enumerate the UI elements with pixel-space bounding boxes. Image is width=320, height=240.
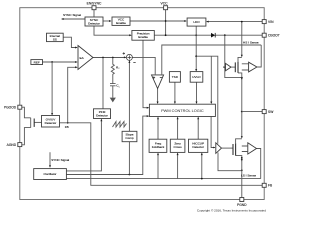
pin AGND xyxy=(7,143,22,147)
box PFM Detector xyxy=(94,109,111,119)
wire VCC Enable to LDO xyxy=(130,20,187,22)
svg-text:HS I Sense: HS I Sense xyxy=(243,40,259,44)
op-amp LS current sense xyxy=(242,143,257,154)
node REF junction xyxy=(51,61,53,63)
wire VIN rail down to HS FET drain xyxy=(238,22,243,62)
svg-text:Detector: Detector xyxy=(192,145,204,149)
wire FB net to FB pin xyxy=(60,123,263,186)
transistor PGOOD FET xyxy=(22,107,34,145)
transistor LS FET xyxy=(233,143,236,155)
svg-text:Enable: Enable xyxy=(138,35,148,39)
wire freq foldback to PWM bottom xyxy=(157,117,159,140)
svg-text:SYNC Signal: SYNC Signal xyxy=(51,158,69,162)
wire VCC pin vertical xyxy=(165,10,167,35)
op-amp HS current sense xyxy=(242,45,261,72)
box LDO xyxy=(187,18,206,26)
wire hiccup to PWM bottom xyxy=(197,117,199,140)
wire TSD to PWM xyxy=(174,82,176,104)
wire LS gate stub xyxy=(222,147,234,149)
comparator PWM comp xyxy=(152,75,164,89)
box REF xyxy=(31,60,43,65)
wire COMP down to PFM detector xyxy=(102,58,104,109)
box Precision Enable xyxy=(132,31,154,41)
pin VIN xyxy=(262,20,274,24)
pin VCC xyxy=(161,1,169,9)
node hiccup net junction xyxy=(201,178,203,180)
wire slope comp chain vertical xyxy=(128,60,130,174)
svg-text:Detector: Detector xyxy=(96,113,108,117)
pin CBOOT xyxy=(262,33,280,37)
node SW junction xyxy=(241,111,243,113)
wire OV/UV to PGOOD FET gate xyxy=(34,121,41,123)
wire SYNC Detector to Precision Enable xyxy=(94,26,132,36)
wire LS FET drain from SW xyxy=(236,112,243,144)
box PWM CONTROL LOGIC xyxy=(149,104,215,116)
wire EN/SYNC pin to SYNC Detector xyxy=(93,10,95,17)
node HS source return junction xyxy=(241,77,243,79)
resistor Rc xyxy=(111,58,114,84)
node LS sense tap junction xyxy=(241,157,243,159)
wire precision enable to PWM left xyxy=(143,40,149,109)
svg-text:Oscillator: Oscillator xyxy=(44,172,57,176)
capacitor Cc xyxy=(110,84,116,98)
box Oscillator xyxy=(34,169,67,180)
svg-text:AGND: AGND xyxy=(7,143,17,147)
wire SYNC Signal stub (top, to left with arrow) xyxy=(61,18,85,20)
wire Internal SS to EA xyxy=(63,37,77,48)
waveform sawtooth xyxy=(113,122,127,128)
wire summing to comparator plus input xyxy=(132,57,155,74)
wire hiccup bottom input xyxy=(201,153,203,179)
wire oscillator out A to PFM xyxy=(66,119,102,171)
box UVLO xyxy=(190,72,203,83)
node VIN junction xyxy=(241,21,243,23)
transistor HS FET xyxy=(235,62,238,73)
node slope-osc junction xyxy=(129,174,131,176)
svg-text:Detector: Detector xyxy=(45,121,57,125)
wire HS gate stub xyxy=(231,66,235,68)
node comp junction B xyxy=(112,57,114,59)
svg-text:FB: FB xyxy=(65,125,69,129)
chip outline border xyxy=(20,8,264,200)
svg-text:SS: SS xyxy=(53,37,57,41)
svg-text:VIN: VIN xyxy=(268,20,274,24)
buffer LS gate driver xyxy=(216,143,222,154)
svg-text:Enable: Enable xyxy=(116,21,126,25)
svg-text:Copyright © 2016, Texas Instru: Copyright © 2016, Texas Instruments Inco… xyxy=(197,208,266,212)
wire PWM 4th top input xyxy=(210,56,212,104)
pin PGND xyxy=(237,198,247,207)
node boot-HSdriver junction xyxy=(224,34,226,36)
node comp junction A xyxy=(102,57,104,59)
svg-text:Foldback: Foldback xyxy=(152,145,165,149)
wire zero cross to PWM bottom xyxy=(177,117,179,140)
buffer HS gate driver xyxy=(226,63,232,70)
box HICCUP Detector xyxy=(189,139,208,152)
wire EA output to summing node xyxy=(93,56,126,58)
box Internal SS xyxy=(47,33,64,41)
svg-text:CBOOT: CBOOT xyxy=(268,34,280,38)
node FB junction xyxy=(67,122,69,124)
svg-text:TSD: TSD xyxy=(172,75,179,79)
wire SYNC Detector to VCC Enable xyxy=(103,20,112,22)
svg-text:Comp: Comp xyxy=(125,136,134,140)
box Zero Cross xyxy=(170,139,185,152)
node VCC-enable junction xyxy=(165,20,167,22)
node LDO-out boot junction xyxy=(195,34,197,36)
box OV/UV Detector xyxy=(42,116,60,128)
svg-text:PGOOD: PGOOD xyxy=(4,106,17,110)
wire UVLO to PWM xyxy=(196,82,198,104)
box Freq Foldback xyxy=(149,139,167,152)
wire SYNC Signal stub into oscillator xyxy=(49,152,51,168)
op-amp EA error amplifier xyxy=(78,46,93,70)
box Slope Comp xyxy=(122,131,137,141)
wire bottom sense net to oscillator xyxy=(66,178,260,180)
wire HS driver input stub xyxy=(223,66,225,68)
wire LS I Sense output down xyxy=(257,149,261,179)
node LS return junction xyxy=(241,169,243,171)
svg-text:UVLO: UVLO xyxy=(192,75,201,79)
svg-text:Detector: Detector xyxy=(88,21,100,25)
svg-text:EN/SYNC: EN/SYNC xyxy=(87,1,102,5)
ground (compensation) xyxy=(110,98,116,103)
box TSD xyxy=(169,72,180,83)
wire HS I Sense feedback line xyxy=(162,45,261,74)
svg-text:VCC: VCC xyxy=(161,1,169,5)
wire freq foldback bottom input xyxy=(157,153,159,179)
diode D1 bootstrap xyxy=(211,33,215,38)
wire zero cross bottom input xyxy=(177,153,179,179)
wire FB to EA input xyxy=(68,66,78,123)
svg-text:LDO: LDO xyxy=(193,20,200,24)
wire CBOOT rail (Precision Enable to diode to CBOOT pin) xyxy=(154,34,262,36)
svg-text:REF: REF xyxy=(34,60,40,64)
svg-text:PWM CONTROL LOGIC: PWM CONTROL LOGIC xyxy=(161,108,204,113)
pin PGOOD xyxy=(4,105,22,109)
box VCC Enable xyxy=(112,17,130,25)
pin FB xyxy=(262,183,273,187)
summing node xyxy=(123,52,136,62)
wire CBOOT branch to HS driver area xyxy=(225,35,242,77)
wire SW pin line xyxy=(242,111,262,113)
wire oscillator out B to PWM left xyxy=(66,115,149,174)
pin EN/SYNC xyxy=(87,1,102,9)
wire LS driver return xyxy=(218,153,242,171)
node LDO-LSsupply junction xyxy=(195,55,197,57)
wire HS FET source to SW xyxy=(238,73,243,112)
svg-text:LS I Sense: LS I Sense xyxy=(241,174,256,178)
svg-text:SW: SW xyxy=(268,110,274,114)
svg-text:PGND: PGND xyxy=(237,203,247,207)
box SYNC Detector xyxy=(85,17,103,26)
wire LDO output down to UVLO xyxy=(195,26,197,71)
wire comparator output to PWM xyxy=(157,89,159,105)
pin SW xyxy=(262,110,274,114)
wire REF to EA xyxy=(43,61,78,63)
wire REF down to OV/UV detector xyxy=(51,62,53,116)
svg-text:SYNC Signal: SYNC Signal xyxy=(63,13,81,17)
svg-text:Cross: Cross xyxy=(174,145,183,149)
wire LS FET source to PGND xyxy=(236,156,243,198)
wire LS driver supply rail xyxy=(196,56,218,143)
wire VIN to LDO xyxy=(206,21,262,23)
wire LS gate drive from PWM xyxy=(211,117,215,149)
node VCC-boot junction xyxy=(165,34,167,36)
